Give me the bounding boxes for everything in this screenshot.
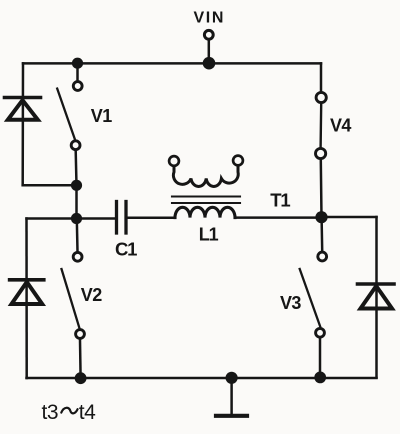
wire V3 to bottom rail [319, 338, 322, 377]
wire top rail [23, 62, 321, 65]
wire T1 node to right diode [322, 216, 377, 219]
node C1 rail junction [71, 213, 82, 224]
switch V3 top terminal [318, 252, 327, 261]
transformer T1 secondary winding [173, 167, 238, 187]
capacitor C1 left plate [115, 202, 118, 234]
label tilde of t3~t4 [61, 408, 77, 414]
terminal VIN [204, 30, 213, 39]
svg-text:L1: L1 [199, 225, 219, 245]
switch V4 bottom terminal [316, 148, 326, 158]
diode D-left-bottom cathode bar [10, 278, 44, 282]
ground bar [216, 414, 247, 418]
wire V1 branch upper [76, 63, 79, 80]
wire T1 node to V3 [320, 224, 323, 251]
transformer T1 secondary left terminal [169, 156, 179, 166]
node V2 bottom junction [75, 372, 87, 384]
svg-text:C1: C1 [115, 239, 137, 260]
node ground junction [226, 372, 238, 384]
svg-text:t3: t3 [42, 401, 59, 424]
diode D-left-top cathode bar [5, 96, 41, 100]
diode D-left-top triangle [8, 100, 38, 120]
transformer T1 core line 2 [172, 202, 240, 204]
switch V4 top terminal [316, 92, 326, 102]
node V3 bottom junction [314, 372, 326, 384]
wire C1 rail left [27, 217, 115, 220]
wire V2 to bottom rail [79, 340, 82, 378]
transformer T1 core line 1 [172, 195, 240, 197]
svg-text:t4: t4 [79, 401, 96, 424]
svg-text:V1: V1 [91, 106, 112, 126]
wire left diode branch [21, 63, 24, 185]
switch V2 bottom terminal [76, 330, 85, 339]
wire V1 bottom to junctions [74, 151, 77, 219]
wire right rail upper [320, 63, 323, 91]
wire bottom rail [27, 377, 377, 380]
switch V4 closed blade [319, 104, 322, 148]
node T1 junction [315, 211, 327, 223]
switch V1 bottom terminal [71, 141, 80, 150]
svg-text:V4: V4 [330, 116, 351, 136]
svg-text:T1: T1 [270, 189, 290, 210]
wire primary to T1 node [235, 216, 322, 219]
diode D-right triangle [361, 286, 393, 309]
inductor L1 primary winding [175, 207, 235, 217]
capacitor C1 right plate [124, 202, 127, 234]
switch V1 top terminal [73, 82, 82, 91]
wire C1 to primary [128, 216, 175, 219]
switch V3 blade [300, 269, 321, 327]
node diode return junction [71, 180, 82, 191]
switch V2 top terminal [73, 252, 82, 261]
svg-text:V2: V2 [81, 285, 102, 305]
switch V2 blade [62, 269, 80, 328]
switch V1 blade [57, 89, 75, 141]
wire left rail lower [25, 219, 28, 379]
node VIN junction [203, 57, 216, 70]
node V1 top junction [72, 58, 83, 69]
switch V3 bottom terminal [316, 328, 325, 337]
svg-text:V3: V3 [280, 293, 301, 313]
wire V4 to T1 node [320, 160, 323, 217]
wire VIN stem [208, 41, 211, 63]
wire left diode to return [23, 184, 72, 187]
wire ground stem [230, 378, 233, 413]
diode D-left-bottom triangle [12, 282, 43, 304]
svg-text:VIN: VIN [194, 10, 225, 27]
wire right diode branch upper [375, 217, 378, 378]
diode D-right cathode bar [358, 282, 395, 286]
wire junction to V2 [76, 219, 79, 252]
transformer T1 secondary right terminal [233, 156, 243, 166]
